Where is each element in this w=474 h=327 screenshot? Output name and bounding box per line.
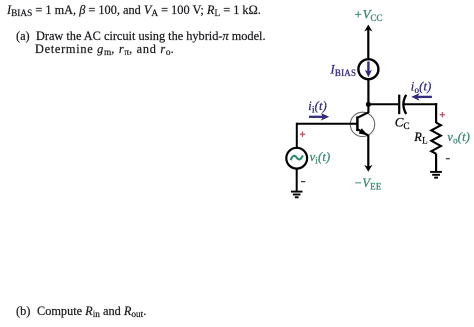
capacitor CC left plate — [398, 95, 400, 115]
minus sign (output) — [446, 158, 450, 160]
part (a) line 2 — [35, 42, 174, 57]
emitter arrowhead — [359, 128, 368, 135]
svg-text:IBIAS: IBIAS — [330, 62, 357, 78]
wire: emitter down to -VEE supply arrow — [364, 135, 372, 172]
input current arrow i_i (blue) — [309, 113, 329, 121]
node (collector junction) — [366, 102, 371, 107]
current source arrow (blue) — [365, 62, 372, 78]
transistor collector diagonal — [357, 112, 368, 118]
minus sign (input) — [301, 181, 305, 183]
svg-text:RL: RL — [413, 130, 427, 146]
wire: source to node — [367, 80, 369, 106]
capacitor CC right (curved) plate — [403, 95, 406, 114]
current source I_BIAS circle — [358, 59, 378, 79]
wire: node to capacitor — [368, 103, 398, 105]
sine wave inside source — [291, 155, 303, 160]
part (b) — [16, 304, 30, 319]
svg-text:+VCC: +VCC — [354, 6, 383, 23]
wire: node down to collector — [367, 104, 369, 113]
svg-text:−VEE: −VEE — [354, 176, 382, 192]
ground (output) — [430, 172, 442, 178]
svg-text:vo(t): vo(t) — [447, 130, 470, 146]
svg-text:io(t): io(t) — [411, 79, 432, 95]
wire: capacitor to corner — [403, 103, 437, 105]
plus sign (input) — [300, 132, 305, 137]
plus sign (output) — [440, 112, 445, 117]
wire: corner down to RL — [435, 103, 437, 123]
output current arrow i_o (blue) — [411, 93, 432, 101]
supply +VCC arrow — [364, 25, 372, 58]
wire: corner down to source — [296, 123, 298, 148]
resistor RL — [431, 123, 441, 154]
wire: RL to ground — [435, 154, 437, 172]
source vi circle — [286, 148, 307, 169]
transistor base bar — [356, 116, 359, 131]
part (a) line 1 — [16, 29, 30, 44]
input wire: corner to base — [297, 123, 357, 125]
transistor emitter diagonal — [357, 129, 368, 135]
svg-text:vi(t): vi(t) — [310, 150, 331, 166]
wire: source to ground — [296, 169, 298, 191]
svg-text:CC: CC — [395, 115, 410, 132]
transistor Q1 circle — [350, 112, 374, 136]
ground (input) — [291, 192, 303, 198]
problem statement line 1 — [7, 3, 261, 18]
svg-text:ii(t): ii(t) — [308, 99, 327, 115]
